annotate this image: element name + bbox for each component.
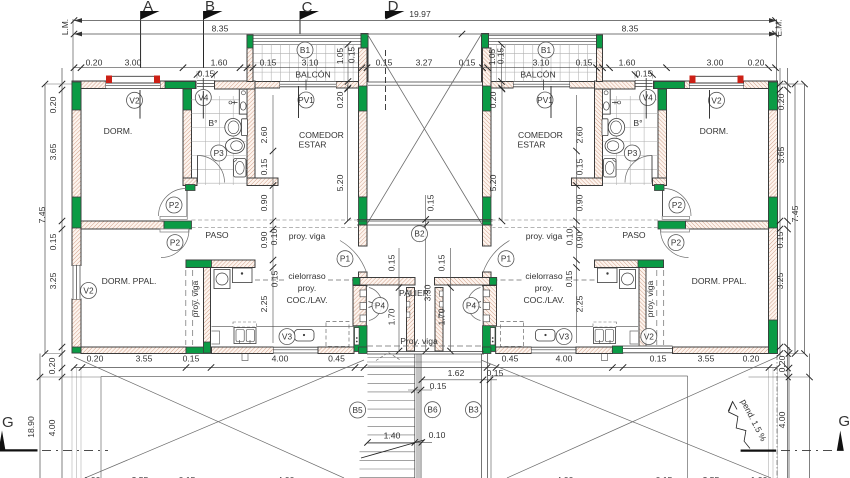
- label circle V3: [279, 329, 295, 345]
- svg-text:3.65: 3.65: [776, 146, 786, 163]
- label circle P2: [669, 197, 685, 213]
- column W3 bottom: [247, 178, 255, 186]
- column left wall top: [72, 82, 81, 110]
- door P2 arc lower: [161, 230, 189, 258]
- ticks on top dimension line: [71, 65, 77, 71]
- svg-text:3.55: 3.55: [136, 354, 153, 364]
- kitchen west wall: [204, 268, 211, 354]
- label circle B2: [412, 226, 428, 242]
- cielorraso dashed line: [255, 279, 286, 281]
- svg-text:P3: P3: [214, 148, 225, 158]
- svg-text:0.90: 0.90: [259, 194, 269, 211]
- column right wall middle: [769, 197, 778, 228]
- column C wall bottom: [354, 326, 367, 352]
- left patio diagonals: [74, 357, 344, 478]
- svg-text:B3: B3: [468, 405, 479, 415]
- grid flag B: [204, 11, 223, 20]
- door P2 lower leaf plate: [160, 229, 189, 232]
- svg-text:0.90: 0.90: [259, 231, 269, 248]
- right patio diagonals: [481, 360, 771, 478]
- grid flag D: [385, 11, 404, 20]
- svg-text:0.15: 0.15: [198, 69, 215, 79]
- column bottom wall: [186, 347, 212, 354]
- column W2 top: [183, 89, 192, 110]
- stair shaft top wall: [367, 351, 484, 353]
- stair up-arrow chevron: [376, 353, 401, 361]
- svg-text:DORM. PPAL.: DORM. PPAL.: [102, 276, 157, 286]
- balcony railing: [253, 34, 362, 36]
- jamb notch: [407, 312, 410, 318]
- column right wall top: [769, 82, 778, 110]
- svg-text:0.15: 0.15: [636, 69, 653, 79]
- bathroom south wall west piece: [183, 178, 197, 186]
- grid G left: [0, 431, 6, 451]
- front wall right of PV1: [336, 82, 362, 89]
- svg-text:0.20: 0.20: [777, 355, 787, 372]
- svg-text:0.20: 0.20: [488, 91, 498, 108]
- grid G right: [837, 431, 844, 451]
- proy viga dashed line lower: [192, 227, 358, 229]
- palier dim x399: [398, 248, 400, 351]
- balcony depth dim: [347, 45, 349, 89]
- window PV1: [280, 80, 336, 91]
- stair side walls: [414, 354, 416, 478]
- right bottom wall west: [496, 347, 532, 354]
- svg-text:0.20: 0.20: [743, 354, 760, 364]
- svg-text:B1: B1: [300, 45, 311, 55]
- wall above door P1: [359, 225, 368, 246]
- svg-text:0.45: 0.45: [328, 354, 345, 364]
- proy viga dashed edge 2: [192, 270, 194, 345]
- wall comedor right upper: [359, 48, 368, 197]
- grid flag A: [141, 11, 160, 20]
- label circle B1: [538, 42, 554, 58]
- svg-text:0.15: 0.15: [260, 58, 277, 68]
- column left wall middle: [72, 197, 81, 228]
- svg-text:V3: V3: [559, 332, 570, 342]
- svg-text:1.05: 1.05: [335, 48, 345, 65]
- column C wall: [359, 86, 368, 111]
- laundry double sink: [233, 322, 257, 327]
- wall dorm-bathroom: [183, 89, 192, 186]
- front wall left of PV1: [255, 82, 280, 89]
- window V2 left wall: [72, 266, 81, 300]
- svg-text:B5: B5: [353, 405, 364, 415]
- top wall right of window V2: [160, 81, 196, 89]
- svg-text:proy. viga: proy. viga: [190, 280, 200, 317]
- svg-text:proy. viga: proy. viga: [289, 231, 326, 241]
- jamb notch: [407, 302, 410, 308]
- outer left wall upper part: [72, 81, 81, 266]
- svg-text:0.20: 0.20: [48, 96, 58, 113]
- svg-text:0.20: 0.20: [47, 357, 57, 374]
- column right bottom wall: [612, 346, 623, 354]
- svg-text:P1: P1: [340, 254, 351, 264]
- bidet: [226, 138, 245, 153]
- svg-text:PASO: PASO: [205, 230, 229, 240]
- svg-text:D: D: [388, 0, 399, 15]
- svg-text:ESTAR: ESTAR: [299, 140, 327, 150]
- svg-text:ESTAR: ESTAR: [518, 140, 546, 150]
- svg-text:0.15: 0.15: [459, 58, 476, 68]
- window V4: [197, 78, 215, 91]
- kitchen north wall: [186, 260, 255, 268]
- window V3: [274, 347, 319, 355]
- svg-text:1.40: 1.40: [384, 431, 401, 441]
- label circle B5: [350, 402, 366, 418]
- svg-text:0.15: 0.15: [387, 254, 397, 271]
- svg-text:B°: B°: [208, 118, 217, 128]
- stair treads: [360, 358, 415, 478]
- svg-text:0.15: 0.15: [496, 48, 506, 65]
- left patio outline: [101, 376, 364, 378]
- top wall left of window V2: [81, 81, 106, 89]
- svg-text:P2: P2: [169, 200, 180, 210]
- label circle B3: [466, 402, 482, 418]
- grid flag C: [300, 11, 319, 20]
- svg-text:3.25: 3.25: [48, 272, 58, 289]
- window V2 right bottom wall: [623, 345, 673, 353]
- svg-text:V4: V4: [643, 93, 654, 103]
- right bottom wall center: [576, 347, 612, 354]
- svg-text:proy. viga: proy. viga: [645, 280, 655, 317]
- column balcony left top: [247, 35, 253, 48]
- dimension line 18.90: [39, 354, 41, 478]
- kitchen east closet wall: [353, 286, 366, 327]
- svg-text:2.25: 2.25: [575, 295, 585, 312]
- svg-text:PALIER: PALIER: [399, 288, 429, 298]
- dimension line bottom chain: [74, 367, 777, 369]
- svg-text:B2: B2: [414, 229, 425, 239]
- bathroom floor tiles: [192, 96, 248, 185]
- svg-text:L.M.: L.M.: [60, 19, 70, 35]
- label circle B1: [297, 42, 313, 58]
- wall bathroom-comedor: [247, 89, 255, 186]
- dim 0.15 stair wall: [408, 389, 432, 391]
- dimension line top chain: [74, 67, 777, 69]
- svg-text:0.15: 0.15: [183, 354, 200, 364]
- label circle PV1: [298, 92, 314, 108]
- label circle P2: [668, 235, 684, 251]
- palier lobby north wall: [353, 278, 415, 286]
- label circle V4: [195, 90, 211, 106]
- svg-text:Proy. viga: Proy. viga: [400, 336, 438, 346]
- svg-text:B1: B1: [541, 45, 552, 55]
- svg-text:3.00: 3.00: [125, 58, 142, 68]
- witness line: [71, 368, 73, 478]
- svg-text:V2: V2: [83, 286, 94, 296]
- label circle P2: [166, 197, 182, 213]
- svg-text:BALCÓN: BALCÓN: [520, 70, 555, 80]
- svg-text:7.45: 7.45: [37, 206, 47, 223]
- right patio outline: [491, 375, 688, 377]
- tap symbol: [229, 101, 232, 104]
- closet notch: [360, 303, 366, 310]
- outer right wall: [769, 81, 778, 354]
- window V3 right: [532, 347, 577, 355]
- door P3 arc: [198, 156, 225, 183]
- dimension line x346: [347, 85, 349, 221]
- svg-text:0.20: 0.20: [86, 58, 103, 68]
- label circle P4: [372, 298, 388, 314]
- V2 witness: [139, 90, 141, 119]
- bathroom south wall east piece: [247, 178, 278, 186]
- door P1 arc: [340, 241, 367, 273]
- svg-text:2.60: 2.60: [575, 126, 585, 143]
- svg-text:0.45: 0.45: [502, 354, 519, 364]
- L.M. boundary line: [72, 19, 74, 81]
- svg-text:0.20: 0.20: [335, 91, 345, 108]
- wall below door P1: [359, 272, 368, 286]
- svg-text:0.15: 0.15: [376, 58, 393, 68]
- svg-text:DORM.: DORM.: [104, 126, 133, 136]
- svg-text:4.00: 4.00: [47, 419, 57, 436]
- svg-text:5.20: 5.20: [488, 174, 498, 191]
- svg-text:0.15: 0.15: [487, 368, 504, 378]
- svg-text:B6: B6: [427, 405, 438, 415]
- column balcony right top: [361, 34, 368, 49]
- label circle V2: [127, 92, 143, 108]
- svg-text:G: G: [2, 414, 14, 431]
- dimension line x273: [272, 95, 274, 343]
- counter top with sink dot: [233, 268, 253, 283]
- svg-text:COC./LAV.: COC./LAV.: [286, 295, 327, 305]
- svg-text:0.10: 0.10: [565, 228, 575, 245]
- window V2 top: [106, 76, 160, 89]
- svg-text:0.15: 0.15: [576, 58, 593, 68]
- svg-text:4.00: 4.00: [556, 354, 573, 364]
- svg-text:2.60: 2.60: [259, 126, 269, 143]
- palier north wall: [357, 218, 493, 220]
- svg-text:5.20: 5.20: [335, 174, 345, 191]
- column left wall bottom corner: [72, 347, 81, 353]
- svg-text:0.15: 0.15: [436, 254, 446, 271]
- column at bathroom door: [186, 185, 196, 191]
- svg-text:0.15: 0.15: [48, 233, 58, 250]
- svg-text:0.20: 0.20: [776, 93, 786, 110]
- right dimension line 7.45: [794, 84, 796, 354]
- toilet: [242, 119, 248, 136]
- column C wall lower: [359, 197, 368, 225]
- jamb notch: [407, 291, 410, 297]
- outer left wall lower part: [72, 299, 81, 353]
- svg-text:3.00: 3.00: [707, 58, 724, 68]
- PV1 witness: [298, 86, 300, 118]
- svg-text:proy.: proy.: [298, 283, 316, 293]
- svg-text:0.15: 0.15: [347, 47, 357, 64]
- door P2 upper leaf: [186, 191, 188, 217]
- svg-text:0.15: 0.15: [259, 158, 269, 175]
- svg-text:COC./LAV.: COC./LAV.: [523, 295, 564, 305]
- door P4 double-swing arc: [369, 288, 382, 321]
- door P2 arc upper: [159, 189, 187, 217]
- dimension line 8.35: [74, 33, 777, 35]
- dimension line 19.97: [74, 20, 777, 22]
- stair break line: [361, 440, 424, 458]
- door P2 upper leaf plate: [160, 216, 187, 219]
- left apartment geometry: [37, 17, 415, 478]
- svg-text:1.62: 1.62: [448, 368, 465, 378]
- svg-text:DORM.: DORM.: [700, 126, 729, 136]
- label circle V2: [641, 329, 657, 345]
- dim 1.62: [422, 379, 497, 381]
- dorm south wall: [81, 221, 164, 229]
- closet notch: [360, 315, 366, 322]
- svg-text:3.10: 3.10: [533, 58, 550, 68]
- label circle P1: [498, 251, 514, 267]
- svg-text:P4: P4: [375, 301, 386, 311]
- central void cross brace: [367, 34, 482, 225]
- svg-text:0.15: 0.15: [775, 231, 785, 248]
- label circle P4: [463, 298, 479, 314]
- svg-text:3.25: 3.25: [775, 272, 785, 289]
- svg-text:3.27: 3.27: [416, 58, 433, 68]
- column kitchen north wall: [186, 260, 212, 268]
- svg-text:3.55: 3.55: [698, 354, 715, 364]
- label circle B6: [425, 402, 441, 418]
- window V2 red jamb right: [154, 76, 160, 84]
- svg-text:0.90: 0.90: [575, 231, 585, 248]
- svg-text:0.15: 0.15: [564, 270, 574, 287]
- svg-text:2.25: 2.25: [259, 295, 269, 312]
- right apartment geometry (mirror): [435, 17, 813, 478]
- column lobby wall: [353, 278, 360, 286]
- svg-text:C: C: [302, 0, 313, 16]
- closet box: [355, 328, 360, 345]
- svg-text:P1: P1: [501, 254, 512, 264]
- svg-text:B: B: [205, 0, 215, 15]
- svg-text:P2: P2: [170, 238, 181, 248]
- window V2 red jamb left: [106, 76, 112, 84]
- label circle PV1: [537, 92, 553, 108]
- label circle P3: [624, 145, 640, 161]
- svg-text:0.15: 0.15: [650, 354, 667, 364]
- svg-text:E.M.: E.M.: [774, 19, 784, 36]
- proy viga dashed edge 1: [185, 270, 187, 345]
- svg-text:COMEDOR: COMEDOR: [518, 130, 563, 140]
- balcony left wall: [247, 35, 253, 82]
- svg-text:0.90: 0.90: [575, 194, 585, 211]
- balcony tile grid: [253, 45, 362, 82]
- svg-text:P2: P2: [671, 238, 682, 248]
- bottom wall center: [212, 347, 274, 354]
- svg-text:0.10: 0.10: [429, 430, 446, 440]
- right dimension line: [779, 68, 781, 356]
- svg-text:7.45: 7.45: [790, 205, 800, 222]
- svg-text:19.97: 19.97: [409, 9, 431, 19]
- small recess below wall: [242, 354, 248, 361]
- svg-text:4.00: 4.00: [777, 411, 787, 428]
- kitchen counter edge: [212, 326, 359, 328]
- closet notch: [360, 290, 366, 297]
- svg-text:cielorraso: cielorraso: [525, 271, 562, 281]
- corner counter lines: [212, 331, 220, 344]
- svg-text:V2: V2: [711, 95, 722, 105]
- svg-text:1.70: 1.70: [436, 308, 446, 325]
- svg-text:COMEDOR: COMEDOR: [299, 130, 344, 140]
- top wall over bathroom: [215, 81, 256, 89]
- svg-text:BALCÓN: BALCÓN: [295, 70, 330, 80]
- svg-text:A: A: [143, 0, 153, 15]
- svg-text:0.15: 0.15: [270, 270, 280, 287]
- column dorm south wall: [164, 221, 192, 229]
- label circle V2: [709, 92, 725, 108]
- bottom wall west: [81, 347, 186, 354]
- svg-text:V3: V3: [282, 332, 293, 342]
- stair shaft inner line: [367, 361, 481, 363]
- svg-text:0.20: 0.20: [748, 58, 765, 68]
- svg-text:PASO: PASO: [622, 230, 646, 240]
- svg-text:G: G: [838, 413, 850, 430]
- svg-text:3.10: 3.10: [302, 58, 319, 68]
- label circle V4: [640, 90, 656, 106]
- E.M. boundary line lower: [776, 355, 778, 478]
- svg-text:V2: V2: [129, 95, 140, 105]
- label circle P2: [167, 235, 183, 251]
- svg-text:cielorraso: cielorraso: [288, 271, 325, 281]
- svg-text:P3: P3: [627, 148, 638, 158]
- svg-text:proy. viga: proy. viga: [526, 231, 563, 241]
- svg-text:0.15: 0.15: [426, 194, 436, 211]
- bathroom sink: [234, 159, 247, 178]
- column kitchen west wall bottom: [204, 342, 211, 353]
- dashed appliance: [326, 322, 349, 347]
- svg-text:3.65: 3.65: [48, 143, 58, 160]
- column in top wall: [165, 82, 196, 89]
- svg-text:1.60: 1.60: [211, 58, 228, 68]
- svg-text:0.15: 0.15: [430, 381, 447, 391]
- label circle V2: [81, 283, 97, 299]
- label circle V3: [556, 329, 572, 345]
- right lower dimension line: [788, 347, 790, 478]
- kitchen sink: [295, 330, 315, 342]
- dimension line 7.45: [44, 84, 46, 354]
- lobby east wall: [407, 288, 415, 352]
- dimension line x62: [61, 68, 63, 478]
- svg-text:18.90: 18.90: [26, 416, 36, 438]
- svg-text:8.35: 8.35: [622, 24, 639, 34]
- pend slope arrow: [729, 402, 750, 449]
- svg-text:4.00: 4.00: [272, 354, 289, 364]
- svg-text:PV1: PV1: [298, 95, 314, 105]
- label circle P3: [211, 145, 227, 161]
- label circle P1: [337, 251, 353, 267]
- balcony right wall: [361, 34, 368, 82]
- svg-text:8.35: 8.35: [212, 24, 229, 34]
- svg-text:proy.: proy.: [535, 283, 553, 293]
- svg-text:V2: V2: [644, 332, 655, 342]
- V4 witness: [202, 91, 204, 119]
- shaft right wall: [481, 354, 483, 478]
- column bottom wall east corner: [359, 347, 367, 354]
- dim 1.40/0.10: [368, 441, 433, 443]
- svg-text:1.70: 1.70: [387, 308, 397, 325]
- svg-text:0.15: 0.15: [575, 158, 585, 175]
- svg-text:0.10: 0.10: [269, 228, 279, 245]
- column right wall bottom: [769, 320, 778, 354]
- front wall lines across void: [368, 81, 483, 83]
- svg-text:1.60: 1.60: [619, 58, 636, 68]
- svg-text:B°: B°: [633, 118, 642, 128]
- right bottom wall east: [673, 347, 769, 354]
- bathroom duct / vanity: [239, 89, 247, 114]
- svg-text:P2: P2: [672, 200, 683, 210]
- svg-text:DORM. PPAL.: DORM. PPAL.: [692, 276, 747, 286]
- svg-text:P4: P4: [466, 301, 477, 311]
- palier center dim line: [425, 195, 427, 351]
- proy viga dashed across stair: [367, 345, 484, 347]
- bottom wall east: [318, 347, 354, 354]
